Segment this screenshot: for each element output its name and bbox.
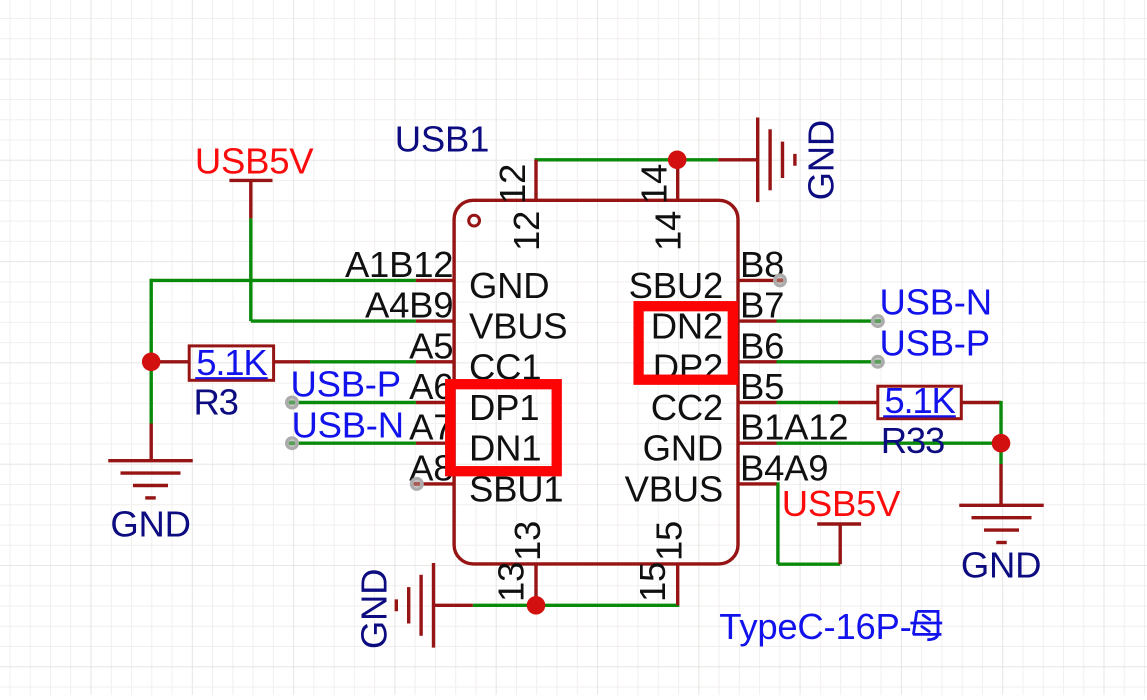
pad pin A8 end bbox=[410, 477, 424, 491]
svg-text:B1A12: B1A12 bbox=[740, 407, 848, 448]
pin B4A9 (VBUS) right side bbox=[737, 482, 777, 485]
svg-text:5.1K: 5.1K bbox=[196, 342, 267, 383]
wire: R33 right lead and corner down bbox=[961, 401, 1001, 404]
svg-text:VBUS: VBUS bbox=[625, 468, 723, 509]
connector USB1 body (TypeC-16P) bbox=[454, 200, 738, 564]
junction dot right R33/GND net bbox=[992, 434, 1011, 453]
wire: junction down to left ground symbol bbox=[149, 362, 152, 424]
svg-text:GND: GND bbox=[110, 504, 190, 545]
ground symbol right bbox=[959, 505, 1044, 585]
svg-text:A5: A5 bbox=[409, 325, 453, 366]
wire: USB-N net to pin A7 bbox=[292, 442, 416, 445]
svg-text:SBU2: SBU2 bbox=[629, 265, 723, 306]
wire: A1B12 GND pin horizontal bbox=[151, 279, 416, 282]
pin-1 indicator circle bbox=[469, 215, 480, 226]
svg-text:14: 14 bbox=[634, 164, 675, 204]
wire: USB-P net to pin A6 bbox=[292, 401, 416, 404]
svg-text:B5: B5 bbox=[740, 366, 784, 407]
ground symbol bottom-left rotated bbox=[353, 563, 433, 649]
svg-text:12: 12 bbox=[492, 164, 533, 204]
wire: pin B5 CC2 to R33 left lead bbox=[777, 401, 839, 404]
wire: top GND net from pin 12 to pin 14 junction to ground bbox=[534, 158, 718, 161]
svg-text:5.1K: 5.1K bbox=[884, 380, 955, 421]
svg-text:14: 14 bbox=[648, 211, 689, 251]
pin B6 (DP2) right side bbox=[737, 360, 777, 363]
wire: USB5V stem down from power bar bbox=[249, 180, 252, 218]
svg-text:R33: R33 bbox=[881, 420, 944, 461]
wire: R3 left lead to junction bbox=[151, 360, 189, 363]
svg-text:15: 15 bbox=[649, 521, 690, 561]
svg-text:USB5V: USB5V bbox=[195, 141, 314, 182]
pin 13 bottom side bbox=[534, 563, 537, 605]
pad pin B8 end bbox=[773, 273, 787, 287]
pin A4B9 (VBUS) left side bbox=[416, 319, 455, 322]
svg-text:13: 13 bbox=[507, 521, 548, 561]
svg-text:13: 13 bbox=[491, 562, 532, 602]
svg-text:CC2: CC2 bbox=[651, 387, 723, 428]
svg-text:USB-N: USB-N bbox=[292, 405, 404, 446]
svg-text:DP1: DP1 bbox=[469, 387, 539, 428]
wire: right junction down to right ground symbol bbox=[999, 443, 1002, 464]
pin B5 (CC2) right side bbox=[737, 401, 777, 404]
svg-text:B6: B6 bbox=[740, 325, 784, 366]
svg-text:GND: GND bbox=[469, 265, 549, 306]
pin B8 (SBU2) right side bbox=[737, 279, 779, 282]
wire: USB5V to A4B9 VBUS pin bbox=[251, 319, 416, 322]
svg-text:DN2: DN2 bbox=[651, 306, 723, 347]
pad right USB-P wire end bbox=[871, 355, 885, 369]
svg-text:USB-N: USB-N bbox=[880, 282, 992, 323]
resistor R3 5.1K bbox=[189, 342, 273, 423]
pin A6 (DP1) left side bbox=[416, 401, 455, 404]
svg-text:TypeC-16P-: TypeC-16P- bbox=[719, 606, 911, 647]
svg-text:USB1: USB1 bbox=[395, 119, 489, 160]
svg-text:GND: GND bbox=[353, 569, 394, 649]
svg-text:USB-P: USB-P bbox=[291, 364, 401, 405]
junction dot bottom GND net bbox=[527, 596, 546, 615]
wire: pin B7 to USB-N net bbox=[777, 319, 878, 322]
pin A5 (CC1) left side bbox=[416, 360, 455, 363]
svg-text:B7: B7 bbox=[740, 285, 784, 326]
ground symbol left bbox=[108, 461, 193, 545]
pad right USB-N wire end bbox=[871, 314, 885, 328]
svg-text:15: 15 bbox=[632, 562, 673, 602]
pin B1A12 (GND) right side bbox=[737, 442, 777, 445]
svg-text:DN1: DN1 bbox=[469, 428, 541, 469]
wire: bottom GND net pin 13 to pin 15 bbox=[473, 604, 680, 607]
wire: pin B1A12 GND to right junction bbox=[777, 442, 1002, 445]
wire: R3 right lead to CC1 pin A5 bbox=[274, 360, 310, 363]
pad USB-N wire end bbox=[285, 436, 299, 450]
hand-drawn CJK glyph 母 bbox=[910, 611, 942, 639]
pin A1B12 (GND) left side bbox=[416, 279, 455, 282]
junction dot top net bbox=[668, 151, 687, 170]
highlight box around DN2/DP2 bbox=[639, 306, 733, 380]
junction dot left GND/R3 net bbox=[142, 353, 161, 372]
power flag USB5V bottom-right bbox=[782, 483, 901, 524]
svg-text:GND: GND bbox=[643, 428, 723, 469]
wire: pin B6 to USB-P net bbox=[777, 360, 878, 363]
svg-text:12: 12 bbox=[506, 211, 547, 251]
highlight box around DP1/DN1 bbox=[450, 384, 557, 471]
svg-text:R3: R3 bbox=[194, 382, 238, 423]
ground symbol top-right rotated bbox=[758, 117, 842, 202]
svg-text:A1B12: A1B12 bbox=[345, 244, 453, 285]
power flag USB5V top-left bbox=[195, 141, 314, 182]
pin 15 bottom side bbox=[676, 563, 679, 605]
svg-text:VBUS: VBUS bbox=[469, 306, 567, 347]
pad USB-P wire end bbox=[285, 396, 299, 410]
svg-text:GND: GND bbox=[801, 120, 842, 200]
wire: left vertical GND net down to junction bbox=[149, 279, 152, 362]
svg-text:USB-P: USB-P bbox=[880, 323, 990, 364]
svg-text:GND: GND bbox=[961, 545, 1041, 586]
svg-text:A4B9: A4B9 bbox=[365, 285, 453, 326]
pin A8 (SBU1) left side bbox=[418, 482, 455, 485]
pin 14 top side bbox=[676, 160, 679, 202]
pin B7 (DN2) right side bbox=[737, 319, 777, 322]
wire: pin B4A9 VBUS down and right to USB5V flag bbox=[776, 482, 779, 564]
resistor R33 5.1K bbox=[878, 380, 962, 461]
pin 12 top side bbox=[534, 160, 537, 202]
pin A7 (DN1) left side bbox=[416, 442, 455, 445]
svg-text:USB5V: USB5V bbox=[782, 483, 901, 524]
